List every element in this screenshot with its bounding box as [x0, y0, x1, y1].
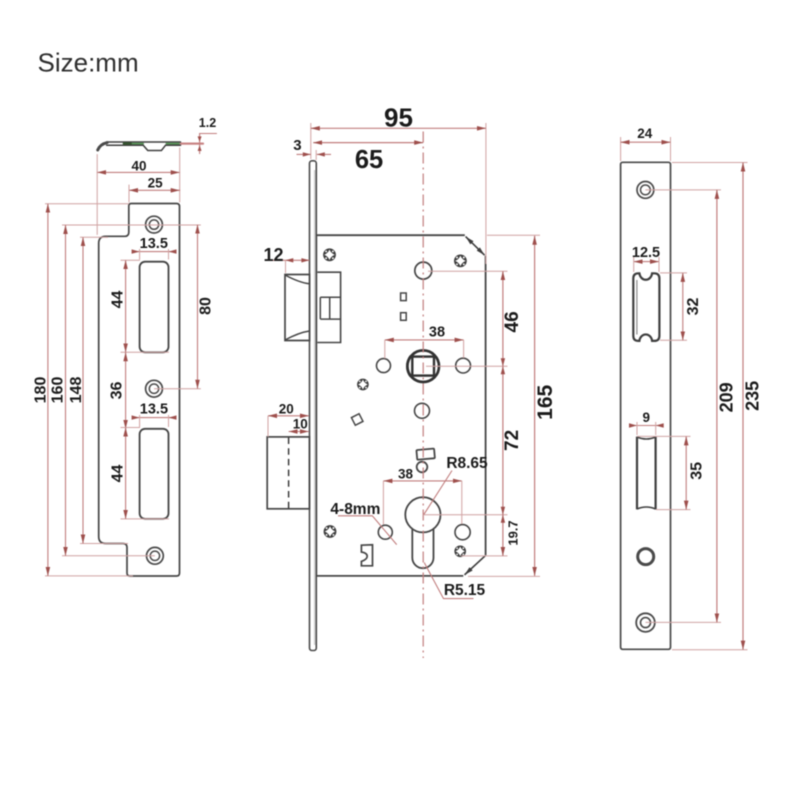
- svg-text:36: 36: [109, 382, 126, 400]
- dimension 25: [129, 189, 180, 191]
- dimension 80: [154, 388, 201, 390]
- dimension 9: [630, 425, 663, 427]
- dimension 3: [297, 153, 332, 155]
- profile bent lip: [98, 143, 108, 150]
- dimension 209: [645, 190, 721, 623]
- svg-text:46: 46: [502, 311, 523, 332]
- faceplate deadbolt cutout: [637, 437, 656, 510]
- hub side hole left: [377, 359, 391, 373]
- tilted square hole: [351, 414, 363, 426]
- deadbolt head: [267, 437, 309, 509]
- latch cutout bottom: [140, 429, 169, 519]
- dimension 36: [125, 352, 127, 429]
- svg-text:3: 3: [293, 137, 301, 154]
- upper hole: [415, 262, 432, 279]
- centerline cylinder axis: [422, 132, 424, 659]
- fixing hole 4-8mm: [378, 525, 392, 539]
- dimension 180: [47, 204, 49, 576]
- dimension 12.5: [634, 261, 659, 263]
- euro cylinder hole: [405, 497, 440, 532]
- case bottom chamfer: [465, 556, 486, 575]
- svg-text:38: 38: [429, 325, 445, 341]
- dimension 1.2: [200, 134, 217, 154]
- dimension chain 46 72 19.7: [423, 271, 508, 556]
- svg-text:80: 80: [198, 297, 215, 315]
- dimension 95: [311, 123, 486, 264]
- screw hole bottom: [147, 547, 164, 564]
- svg-text:12: 12: [263, 245, 283, 265]
- svg-text:R5.15: R5.15: [444, 582, 486, 599]
- dimension 165: [468, 235, 540, 576]
- faceplate latch cutout: [633, 273, 659, 341]
- svg-text:13.5: 13.5: [140, 402, 168, 418]
- svg-text:38: 38: [398, 466, 414, 481]
- svg-text:44: 44: [109, 291, 126, 309]
- svg-text:13.5: 13.5: [140, 236, 168, 252]
- dimension 10 deadbolt: [289, 431, 309, 433]
- svg-text:20: 20: [279, 402, 294, 417]
- svg-text:235: 235: [742, 381, 762, 411]
- svg-text:35: 35: [689, 462, 706, 480]
- small square hole 2: [401, 313, 407, 321]
- deadbolt throw dashed line: [288, 438, 290, 509]
- svg-text:10: 10: [293, 416, 308, 431]
- svg-text:24: 24: [637, 126, 653, 141]
- svg-text:1.2: 1.2: [199, 116, 216, 130]
- dimension 35: [637, 436, 691, 509]
- strike plate edge profile strip: [107, 142, 181, 151]
- faceplate outline: [621, 162, 671, 649]
- hole below hub: [415, 403, 430, 418]
- svg-text:19.7: 19.7: [506, 520, 521, 545]
- svg-text:65: 65: [355, 146, 383, 174]
- latch bolt head: [285, 275, 310, 341]
- screw mid left: [357, 379, 369, 391]
- svg-text:40: 40: [131, 159, 146, 174]
- screw hole middle: [146, 380, 163, 397]
- extension lines left: [45, 204, 201, 576]
- svg-text:44: 44: [109, 465, 126, 483]
- dimension 235: [672, 163, 748, 650]
- lock case body: [316, 235, 485, 576]
- svg-text:95: 95: [384, 103, 413, 133]
- dimension 148: [82, 237, 84, 543]
- small rect above cylinder: [416, 449, 434, 460]
- dimension 44 top: [121, 260, 170, 352]
- dimension 12 latch protrusion: [269, 259, 310, 261]
- svg-text:25: 25: [148, 176, 164, 191]
- dimension 40: [97, 171, 180, 173]
- dimension 160: [65, 225, 67, 556]
- stamped tab: [361, 545, 372, 566]
- svg-text:148: 148: [68, 377, 85, 404]
- svg-text:R8.65: R8.65: [446, 455, 488, 472]
- dimension 38 lower: [383, 480, 461, 482]
- svg-text:209: 209: [716, 382, 736, 412]
- dimension 38 upper: [385, 339, 464, 341]
- dimension 24: [621, 137, 671, 161]
- svg-text:160: 160: [50, 377, 67, 404]
- dimension 13.5 bottom: [133, 417, 176, 419]
- dimension 65: [313, 142, 423, 144]
- screw top right: [454, 255, 467, 268]
- faceplate middle hole: [638, 549, 654, 565]
- svg-text:72: 72: [502, 430, 523, 451]
- faceplate screw hole top: [637, 182, 654, 199]
- screw top left: [323, 248, 336, 261]
- hub side hole right: [456, 358, 471, 373]
- case top chamfer: [466, 237, 485, 256]
- latch follower body inside case: [317, 272, 340, 342]
- svg-text:12.5: 12.5: [632, 245, 660, 261]
- svg-text:165: 165: [534, 384, 557, 419]
- dimension 13.5 top: [133, 251, 176, 253]
- faceplate screw hole bottom: [636, 613, 655, 632]
- front faceplate bar: [310, 161, 317, 651]
- dimension 44 bottom: [121, 428, 170, 519]
- profile red extension to 1.2 dim: [181, 143, 203, 145]
- strike plate outline: [99, 204, 180, 577]
- svg-text:9: 9: [642, 410, 650, 425]
- small circle above cylinder: [417, 462, 428, 473]
- screw bottom left: [324, 525, 337, 538]
- svg-text:180: 180: [33, 377, 50, 404]
- latch cutout top: [140, 262, 169, 353]
- screw hole top: [146, 216, 163, 233]
- spindle hub: [407, 350, 439, 382]
- svg-text:32: 32: [685, 298, 702, 316]
- screw bottom right: [454, 545, 466, 557]
- dimension 32: [660, 273, 687, 340]
- svg-text:Size:mm: Size:mm: [38, 48, 139, 78]
- small square hole 1: [401, 293, 407, 301]
- dimension 20 deadbolt: [268, 415, 309, 417]
- hole right of cylinder: [455, 525, 470, 540]
- profile green coating marks: [131, 143, 143, 145]
